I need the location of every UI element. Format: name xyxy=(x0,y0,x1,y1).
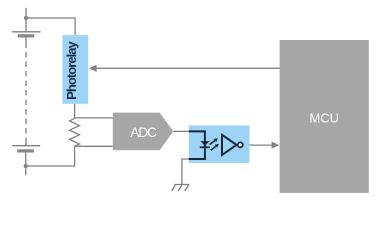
svg-text:MCU: MCU xyxy=(309,111,339,126)
svg-text:Photorelay: Photorelay xyxy=(64,40,79,99)
svg-text:ADC: ADC xyxy=(130,125,157,140)
